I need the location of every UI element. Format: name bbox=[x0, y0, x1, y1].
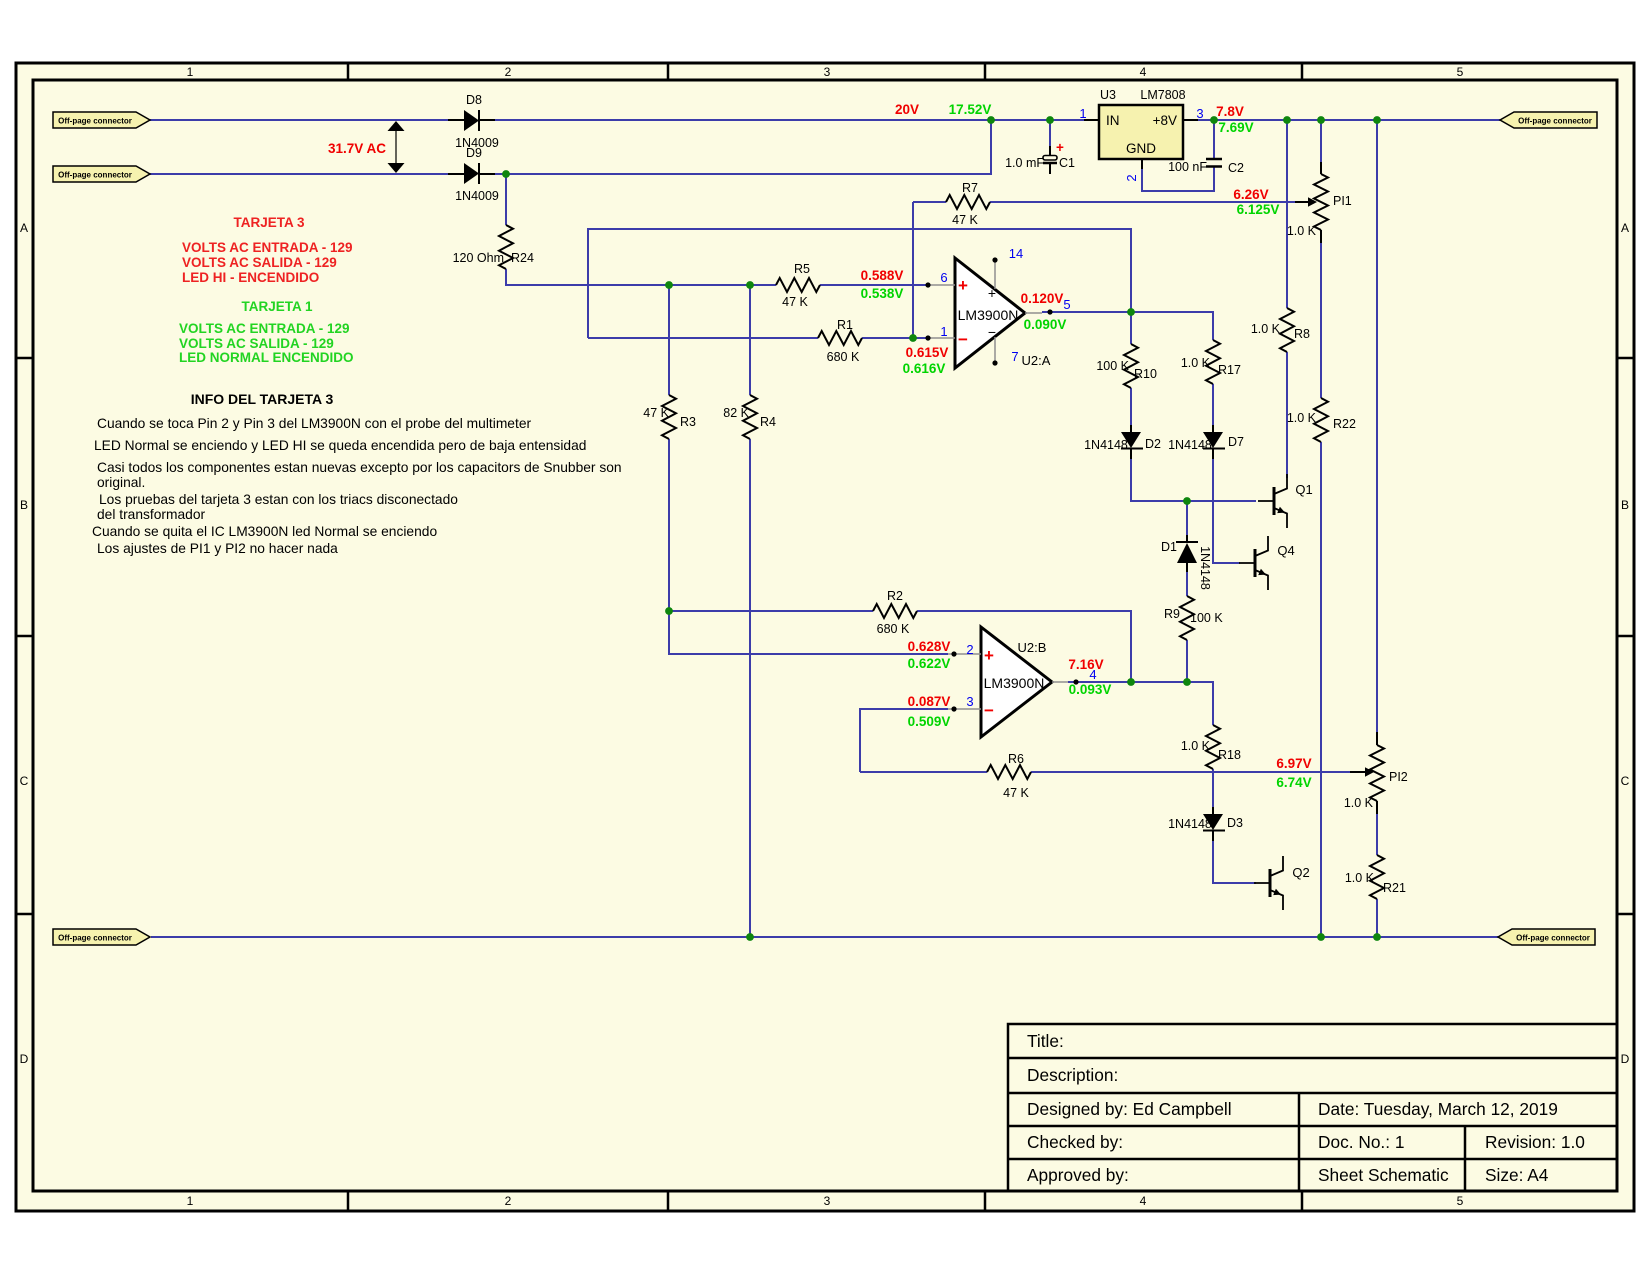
svg-text:14: 14 bbox=[1009, 246, 1023, 261]
svg-text:6.97V: 6.97V bbox=[1276, 756, 1311, 771]
svg-text:TARJETA 3: TARJETA 3 bbox=[233, 215, 304, 230]
svg-text:0.616V: 0.616V bbox=[903, 361, 946, 376]
svg-text:Designed by: Ed Campbell: Designed by: Ed Campbell bbox=[1027, 1099, 1232, 1119]
svg-text:1: 1 bbox=[187, 1194, 194, 1208]
svg-text:5: 5 bbox=[1063, 297, 1070, 312]
svg-text:VOLTS AC SALIDA - 129: VOLTS AC SALIDA - 129 bbox=[179, 336, 334, 351]
svg-text:0.509V: 0.509V bbox=[908, 714, 951, 729]
svg-text:1.0 K: 1.0 K bbox=[1287, 411, 1317, 425]
svg-text:C1: C1 bbox=[1059, 156, 1075, 170]
svg-text:R2: R2 bbox=[887, 589, 903, 603]
svg-text:LED Normal se enciendo y LED H: LED Normal se enciendo y LED HI se queda… bbox=[94, 438, 586, 453]
svg-text:Los ajustes de PI1 y PI2 no ha: Los ajustes de PI1 y PI2 no hacer nada bbox=[97, 541, 338, 556]
svg-text:0.087V: 0.087V bbox=[908, 694, 951, 709]
svg-text:2: 2 bbox=[966, 642, 973, 657]
svg-text:Los pruebas del tarjeta 3 esta: Los pruebas del tarjeta 3 estan con los … bbox=[99, 492, 458, 507]
svg-text:Size: A4: Size: A4 bbox=[1485, 1165, 1549, 1185]
svg-text:1: 1 bbox=[1079, 106, 1086, 121]
svg-text:VOLTS AC SALIDA - 129: VOLTS AC SALIDA - 129 bbox=[182, 255, 337, 270]
svg-text:B: B bbox=[1621, 498, 1629, 512]
svg-text:PI1: PI1 bbox=[1333, 194, 1352, 208]
svg-text:0.615V: 0.615V bbox=[906, 345, 949, 360]
svg-text:7.69V: 7.69V bbox=[1218, 120, 1253, 135]
svg-text:D2: D2 bbox=[1145, 437, 1161, 451]
svg-text:Checked by:: Checked by: bbox=[1027, 1132, 1123, 1152]
svg-text:del transformador: del transformador bbox=[97, 507, 206, 522]
svg-text:Off-page connector: Off-page connector bbox=[58, 934, 132, 943]
svg-text:1: 1 bbox=[187, 65, 194, 79]
svg-text:LM3900N: LM3900N bbox=[984, 675, 1045, 691]
svg-text:1N4148: 1N4148 bbox=[1168, 438, 1212, 452]
svg-text:1: 1 bbox=[940, 324, 947, 339]
svg-text:original.: original. bbox=[97, 475, 145, 490]
svg-text:+8V: +8V bbox=[1153, 113, 1177, 128]
svg-text:R3: R3 bbox=[680, 415, 696, 429]
svg-text:1.0 mF: 1.0 mF bbox=[1005, 156, 1044, 170]
svg-text:Q2: Q2 bbox=[1292, 865, 1309, 880]
svg-text:Q1: Q1 bbox=[1295, 482, 1312, 497]
svg-text:0.628V: 0.628V bbox=[908, 639, 951, 654]
svg-text:3: 3 bbox=[824, 65, 831, 79]
svg-text:Revision: 1.0: Revision: 1.0 bbox=[1485, 1132, 1585, 1152]
svg-text:INFO DEL TARJETA 3: INFO DEL TARJETA 3 bbox=[191, 391, 334, 407]
svg-text:D1: D1 bbox=[1161, 540, 1177, 554]
svg-text:31.7V AC: 31.7V AC bbox=[328, 141, 386, 156]
svg-text:Date: Tuesday, March 12, 2019: Date: Tuesday, March 12, 2019 bbox=[1318, 1099, 1558, 1119]
svg-text:7.16V: 7.16V bbox=[1068, 657, 1103, 672]
svg-text:47 K: 47 K bbox=[782, 295, 808, 309]
svg-text:4: 4 bbox=[1140, 65, 1147, 79]
svg-text:100 K: 100 K bbox=[1096, 359, 1129, 373]
svg-text:7: 7 bbox=[1011, 349, 1018, 364]
svg-text:R24: R24 bbox=[511, 251, 534, 265]
svg-text:1.0 K: 1.0 K bbox=[1181, 739, 1211, 753]
svg-text:TARJETA 1: TARJETA 1 bbox=[241, 299, 312, 314]
svg-text:Off-page connector: Off-page connector bbox=[1516, 934, 1590, 943]
svg-text:0.538V: 0.538V bbox=[861, 286, 904, 301]
svg-text:2: 2 bbox=[1124, 174, 1139, 181]
svg-text:5: 5 bbox=[1457, 65, 1464, 79]
svg-text:LED HI - ENCENDIDO: LED HI - ENCENDIDO bbox=[182, 270, 319, 285]
svg-text:VOLTS AC ENTRADA - 129: VOLTS AC ENTRADA - 129 bbox=[182, 240, 353, 255]
svg-text:Off-page connector: Off-page connector bbox=[1518, 117, 1592, 126]
svg-text:1.0 K: 1.0 K bbox=[1181, 356, 1211, 370]
svg-text:A: A bbox=[20, 221, 28, 235]
svg-text:47 K: 47 K bbox=[643, 406, 669, 420]
svg-text:1N4148: 1N4148 bbox=[1198, 546, 1212, 590]
svg-text:47 K: 47 K bbox=[952, 213, 978, 227]
svg-text:+: + bbox=[984, 646, 994, 665]
svg-text:D9: D9 bbox=[466, 146, 482, 160]
svg-text:B: B bbox=[20, 498, 28, 512]
svg-text:D: D bbox=[1621, 1052, 1630, 1066]
svg-text:Approved by:: Approved by: bbox=[1027, 1165, 1129, 1185]
svg-text:1.0 K: 1.0 K bbox=[1251, 322, 1281, 336]
svg-text:6.74V: 6.74V bbox=[1276, 775, 1311, 790]
svg-text:0.588V: 0.588V bbox=[861, 268, 904, 283]
svg-text:47 K: 47 K bbox=[1003, 786, 1029, 800]
svg-text:R18: R18 bbox=[1218, 748, 1241, 762]
svg-text:−: − bbox=[988, 324, 996, 340]
svg-text:D7: D7 bbox=[1228, 435, 1244, 449]
svg-text:U2:B: U2:B bbox=[1018, 640, 1047, 655]
svg-text:0.120V: 0.120V bbox=[1021, 291, 1064, 306]
svg-text:Q4: Q4 bbox=[1277, 543, 1294, 558]
svg-text:3: 3 bbox=[1196, 106, 1203, 121]
svg-text:R8: R8 bbox=[1294, 327, 1310, 341]
svg-text:4: 4 bbox=[1140, 1194, 1147, 1208]
svg-text:5: 5 bbox=[1457, 1194, 1464, 1208]
svg-text:3: 3 bbox=[966, 694, 973, 709]
svg-text:R10: R10 bbox=[1134, 367, 1157, 381]
svg-text:1.0 K: 1.0 K bbox=[1344, 796, 1374, 810]
svg-text:−: − bbox=[984, 701, 994, 720]
svg-text:U2:A: U2:A bbox=[1022, 353, 1051, 368]
svg-text:Doc. No.: 1: Doc. No.: 1 bbox=[1318, 1132, 1404, 1152]
svg-text:D: D bbox=[20, 1052, 29, 1066]
svg-text:6: 6 bbox=[940, 270, 947, 285]
svg-text:IN: IN bbox=[1106, 113, 1120, 128]
svg-text:VOLTS AC ENTRADA - 129: VOLTS AC ENTRADA - 129 bbox=[179, 321, 350, 336]
svg-text:GND: GND bbox=[1126, 141, 1156, 156]
svg-text:Off-page connector: Off-page connector bbox=[58, 117, 132, 126]
svg-text:680 K: 680 K bbox=[827, 350, 860, 364]
svg-text:R7: R7 bbox=[962, 181, 978, 195]
svg-text:+: + bbox=[988, 285, 996, 301]
svg-text:100 K: 100 K bbox=[1190, 611, 1223, 625]
svg-text:680 K: 680 K bbox=[877, 622, 910, 636]
svg-text:D8: D8 bbox=[466, 93, 482, 107]
svg-text:100 nF: 100 nF bbox=[1168, 160, 1207, 174]
svg-text:PI2: PI2 bbox=[1389, 770, 1408, 784]
svg-text:LM3900N: LM3900N bbox=[958, 307, 1019, 323]
svg-text:R17: R17 bbox=[1218, 363, 1241, 377]
svg-text:2: 2 bbox=[505, 1194, 512, 1208]
svg-text:C: C bbox=[1621, 774, 1630, 788]
svg-text:U3: U3 bbox=[1100, 88, 1116, 102]
svg-text:Description:: Description: bbox=[1027, 1065, 1118, 1085]
svg-text:1.0 K: 1.0 K bbox=[1287, 224, 1317, 238]
svg-text:+: + bbox=[958, 276, 968, 295]
svg-text:1.0 K: 1.0 K bbox=[1345, 871, 1375, 885]
svg-text:LED NORMAL ENCENDIDO: LED NORMAL ENCENDIDO bbox=[179, 350, 354, 365]
svg-text:D3: D3 bbox=[1227, 816, 1243, 830]
svg-text:R22: R22 bbox=[1333, 417, 1356, 431]
svg-text:7.8V: 7.8V bbox=[1216, 104, 1244, 119]
svg-text:R21: R21 bbox=[1383, 881, 1406, 895]
svg-text:2: 2 bbox=[505, 65, 512, 79]
svg-text:C2: C2 bbox=[1228, 161, 1244, 175]
svg-text:R5: R5 bbox=[794, 262, 810, 276]
svg-text:R9: R9 bbox=[1164, 607, 1180, 621]
svg-text:Cuando se toca Pin 2 y Pin 3 d: Cuando se toca Pin 2 y Pin 3 del LM3900N… bbox=[97, 416, 531, 431]
svg-text:17.52V: 17.52V bbox=[949, 102, 992, 117]
svg-text:20V: 20V bbox=[895, 102, 919, 117]
svg-text:R1: R1 bbox=[837, 318, 853, 332]
svg-text:3: 3 bbox=[824, 1194, 831, 1208]
svg-text:R4: R4 bbox=[760, 415, 776, 429]
svg-text:Sheet Schematic: Sheet Schematic bbox=[1318, 1165, 1449, 1185]
svg-text:−: − bbox=[958, 330, 968, 349]
svg-text:R6: R6 bbox=[1008, 752, 1024, 766]
svg-text:1N4148: 1N4148 bbox=[1084, 438, 1128, 452]
svg-text:0.090V: 0.090V bbox=[1024, 317, 1067, 332]
svg-text:0.622V: 0.622V bbox=[908, 656, 951, 671]
svg-text:LM7808: LM7808 bbox=[1140, 88, 1185, 102]
svg-text:1N4148: 1N4148 bbox=[1168, 817, 1212, 831]
svg-text:Title:: Title: bbox=[1027, 1031, 1064, 1051]
svg-text:0.093V: 0.093V bbox=[1069, 682, 1112, 697]
svg-text:1N4009: 1N4009 bbox=[455, 189, 499, 203]
svg-text:A: A bbox=[1621, 221, 1629, 235]
svg-text:C: C bbox=[20, 774, 29, 788]
svg-text:6.125V: 6.125V bbox=[1237, 202, 1280, 217]
svg-text:+: + bbox=[1056, 140, 1064, 155]
svg-text:82 K: 82 K bbox=[723, 406, 749, 420]
svg-text:Cuando se quita el IC LM3900N: Cuando se quita el IC LM3900N led Normal… bbox=[92, 524, 437, 539]
svg-text:6.26V: 6.26V bbox=[1233, 187, 1268, 202]
svg-text:Casi todos los componentes est: Casi todos los componentes estan nuevas … bbox=[97, 460, 622, 475]
svg-text:Off-page connector: Off-page connector bbox=[58, 171, 132, 180]
svg-text:120 Ohm: 120 Ohm bbox=[453, 251, 504, 265]
